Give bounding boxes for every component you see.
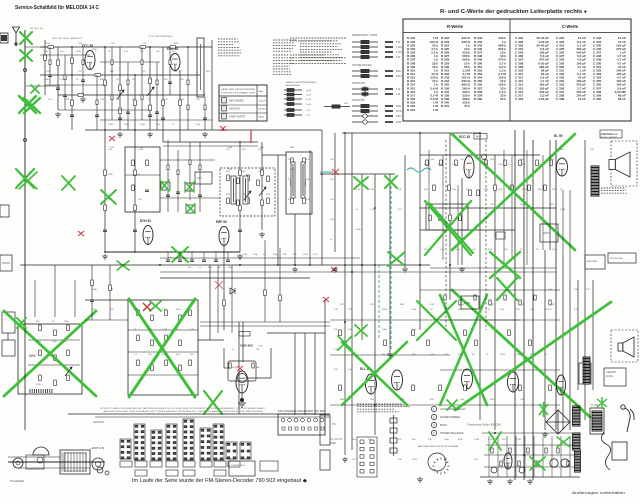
- ground symbol 19: [237, 254, 243, 259]
- svg-text:ABSCHALTUNG FÜR MUTE SCHEMA: ABSCHALTUNG FÜR MUTE SCHEMA: [418, 445, 459, 448]
- junction dot 20: [532, 207, 534, 209]
- wire v x480: [479, 133, 481, 420]
- resistor fm extra 3: [82, 60, 84, 65]
- red cross mark 4: [323, 297, 329, 302]
- wire fm h y62: [100, 61, 160, 63]
- wire amp v x498: [497, 436, 499, 477]
- left edge top box fill: [1, 35, 7, 41]
- resistor right audio 8: [485, 160, 488, 166]
- resistor IF box 3: [237, 178, 240, 184]
- resistor IF box 4: [237, 200, 240, 206]
- wire v x55 up: [54, 265, 56, 317]
- resistor AM box 6: [54, 380, 57, 386]
- resistor fm extra 8: [141, 60, 143, 65]
- wire v x504 rt: [503, 150, 505, 265]
- wire v x190 mid: [189, 142, 191, 200]
- dial drive pulley left: [13, 458, 23, 468]
- resistor output area 9: [464, 385, 467, 391]
- wire fm v x163: [162, 47, 164, 142]
- resistor AM box 1: [39, 325, 42, 331]
- wire fm top rail: [40, 46, 212, 48]
- capacitor bus row 3: [190, 260, 194, 262]
- legend2 symbol row 1: [284, 89, 302, 92]
- svg-text:R 321: R 321: [407, 108, 416, 112]
- svg-text:300c: 300c: [396, 105, 402, 108]
- wire v x405: [404, 155, 406, 265]
- red cross mark 1: [109, 136, 115, 141]
- junction dot bus 1: [159, 264, 161, 266]
- wire v x110 mid: [109, 265, 111, 320]
- table header separator: [403, 32, 631, 34]
- connector lower box 7: [214, 461, 226, 467]
- wire fm v x142: [141, 47, 143, 120]
- resistor AM box2 10: [179, 315, 182, 321]
- resistor fm extra 4: [96, 100, 98, 105]
- svg-text:120p: 120p: [253, 254, 259, 256]
- svg-text:ULTRASONIC DELAY: ULTRASONIC DELAY: [440, 407, 466, 411]
- wire stub bus 5: [215, 252, 217, 260]
- table R/C divider: [509, 19, 511, 121]
- resistor AM box 8: [67, 350, 70, 356]
- legend circled number 2: [431, 414, 436, 419]
- svg-text:NF-BUCHSE: NF-BUCHSE: [610, 258, 623, 260]
- svg-text:EBF 89: EBF 89: [216, 220, 227, 224]
- ground symbol 12: [342, 457, 348, 462]
- svg-text:2,2M: 2,2M: [370, 209, 375, 211]
- resistor amp 6: [536, 461, 538, 466]
- deletion mark X w2: [497, 278, 517, 300]
- legend2 symbol row 6: [284, 114, 302, 117]
- resistor right mid 6: [519, 300, 521, 305]
- wire v x305 down: [304, 333, 306, 415]
- wire v x593: [592, 280, 594, 390]
- wire h y47 left stub: [25, 46, 53, 48]
- antenna symbol: [13, 27, 20, 46]
- svg-text:UKW TEIL NICHT GEDRUCKT: UKW TEIL NICHT GEDRUCKT: [52, 38, 83, 40]
- connector lower box 8: [228, 461, 240, 467]
- connector lower box 6: [200, 461, 212, 467]
- svg-text:49-51: 49-51: [259, 117, 265, 119]
- svg-text:400/1: 400/1: [396, 75, 403, 78]
- left edge connector b2: [320, 450, 330, 470]
- resistor output area 1: [339, 330, 342, 336]
- wire fm v x105: [104, 47, 106, 252]
- svg-text:2,2M: 2,2M: [516, 439, 521, 441]
- resistor output area 5: [412, 385, 415, 391]
- MW coil dark bar: [30, 389, 52, 393]
- wire fm v x150: [149, 47, 151, 130]
- tube EBF89: [216, 220, 229, 246]
- capacitor bus row 2: [178, 260, 182, 262]
- capacitor ifstrip 3: [198, 195, 202, 197]
- wire stub bus 1: [167, 252, 169, 260]
- legend power resistor row 2: [352, 74, 393, 77]
- svg-text:TAPE: TAPE: [330, 442, 336, 445]
- resistor mid left 1: [91, 280, 94, 286]
- IF transformer Tr1 tall box: [197, 38, 204, 97]
- record panel label box: [600, 130, 622, 138]
- resistor fm extra 10: [156, 80, 158, 85]
- note voltages bottom right: [357, 404, 410, 412]
- svg-text:ABSTIMM: ABSTIMM: [587, 260, 597, 263]
- resistor amp 5: [527, 448, 529, 453]
- resistor 5x box 2: [439, 215, 442, 221]
- table R/C values outer border: [403, 19, 631, 121]
- wire h y155 mid: [262, 154, 286, 156]
- ground symbol 7: [292, 267, 298, 272]
- Tr104 core: [592, 411, 602, 431]
- ground symbol below EABC80: [238, 398, 246, 407]
- svg-text:TOP BELASTUNG: TOP BELASTUNG: [352, 64, 372, 67]
- capacitor fm area 8: [238, 230, 242, 232]
- junction dot 1: [71, 46, 73, 48]
- svg-text:AT-BT PLATTE: AT-BT PLATTE: [229, 116, 245, 119]
- svg-text:EL 95: EL 95: [554, 134, 563, 138]
- transistor circle amp 2: [519, 467, 525, 473]
- deletion mark X w1: [490, 252, 520, 278]
- resistor fm area 4: [71, 100, 74, 106]
- svg-text:100p: 100p: [444, 439, 450, 441]
- resistor fm area 8: [134, 100, 137, 106]
- power transformer winding seg1: [573, 406, 581, 426]
- resistor fm area 16: [134, 205, 137, 211]
- svg-text:6,3V: 6,3V: [500, 309, 505, 311]
- svg-text:R 341: R 341: [441, 104, 450, 108]
- wire h y146 mid: [163, 145, 258, 147]
- deletion mark X x164: [160, 180, 169, 191]
- resistor IF box 5: [247, 175, 250, 181]
- resistor output area 2: [339, 385, 342, 391]
- resistor output area 14: [549, 385, 552, 391]
- deletion mark X x24 y178 b: [19, 172, 37, 189]
- resistor ifstrip 1: [167, 165, 169, 170]
- svg-text:47 k: 47 k: [464, 104, 470, 108]
- wave table header line: [219, 95, 267, 97]
- wire h y133 right: [342, 132, 480, 134]
- wire v x295 down: [294, 333, 296, 415]
- resistor AM box2 13: [189, 310, 192, 316]
- junction dot bus 5: [419, 264, 421, 266]
- variable cap arrow 5: [65, 367, 72, 376]
- dial tick marks: [62, 452, 86, 472]
- capacitor ifstrip 1: [166, 195, 170, 197]
- wire h y300: [85, 299, 128, 301]
- red cross mark 2: [78, 231, 84, 236]
- wire h y340 mid: [198, 339, 224, 341]
- wire amp v x561: [560, 436, 562, 477]
- svg-text:R 360: R 360: [474, 97, 483, 101]
- resistor output area 6: [427, 340, 430, 346]
- resistor 5x box 3: [449, 215, 452, 221]
- svg-text:4-20 pF: 4-20 pF: [538, 97, 549, 101]
- box gegentakt text: [604, 368, 626, 386]
- resistor AM box2 11: [179, 340, 182, 346]
- wire amp h477: [480, 476, 580, 478]
- resistor right mid 2: [459, 300, 461, 305]
- wave table row box 1: [222, 98, 227, 104]
- svg-text:1 MΩ: 1 MΩ: [464, 302, 470, 305]
- IF coil winding 2: [243, 176, 248, 204]
- svg-text:100p: 100p: [52, 341, 58, 343]
- table column C301ff values: [515, 36, 549, 101]
- capacitor fm extra 5: [126, 112, 130, 114]
- wire amp v x525: [524, 436, 526, 477]
- svg-text:MUT: MUT: [476, 135, 482, 139]
- red cross mark 5: [215, 281, 223, 289]
- capacitor fm area 4: [148, 115, 152, 117]
- deletion mark X x537 y463: [530, 457, 545, 470]
- connector lower box 4: [166, 461, 178, 467]
- note left of legend b: [290, 55, 346, 63]
- svg-text:2,2M: 2,2M: [438, 164, 443, 166]
- junction dot bus 2: [239, 264, 241, 266]
- wire fm v x188: [187, 47, 189, 130]
- legend resistor symbol row 2: [352, 45, 393, 48]
- resistor right audio 2: [433, 185, 436, 191]
- tube EABC80: [236, 371, 248, 393]
- resistor IFT2 4: [303, 158, 306, 164]
- svg-text:VIA-FIX-B: VIA-FIX-B: [93, 421, 104, 424]
- junction dot 18: [479, 132, 481, 134]
- junction dot 2: [104, 46, 106, 48]
- wire fm rail3: [58, 94, 205, 96]
- svg-text:HÖHEN TREBLE: HÖHEN TREBLE: [440, 415, 460, 419]
- wire v x570: [569, 280, 571, 430]
- mains cable squiggle: [601, 432, 610, 470]
- table column R343ff values: [474, 36, 506, 101]
- junction dot 22: [134, 251, 136, 253]
- resistor fm extra 13: [187, 105, 189, 110]
- wire fm v x50: [49, 47, 51, 85]
- wire cmh right vertical: [270, 348, 272, 378]
- wire h y86 left stub: [26, 85, 60, 87]
- junction dot bus 9: [523, 454, 525, 456]
- deletion mark X big left b: [24, 98, 40, 113]
- deletion mark X x190 y208: [186, 204, 195, 213]
- resistor ifstrip 4: [199, 165, 201, 170]
- svg-text:C 360: C 360: [593, 97, 602, 101]
- svg-text:2,2M: 2,2M: [162, 329, 167, 331]
- svg-text:ERSATZ DER WIDERSTÄNDE: ERSATZ DER WIDERSTÄNDE: [286, 81, 317, 84]
- wire v x278: [277, 155, 279, 265]
- svg-text:100c: 100c: [396, 115, 402, 118]
- wire bus y272: [160, 271, 556, 273]
- small box mid right: [496, 232, 505, 239]
- legend2 symbol row 2: [284, 93, 302, 96]
- left edge box upper: [2, 312, 15, 333]
- wave table row line 2: [219, 112, 267, 114]
- wire v x168 mid: [167, 140, 169, 212]
- resistor right audio 11: [511, 185, 514, 191]
- designator labels scatter: [46, 43, 555, 401]
- connector lower box 3: [150, 461, 162, 467]
- wire dashed v x446: [445, 140, 447, 330]
- resistor fm horizontal 1: [48, 46, 54, 49]
- wire bus y268 right: [430, 267, 556, 269]
- legend misc symbol row 4: [352, 120, 393, 124]
- resistor right mid 3: [474, 295, 476, 300]
- ground symbol 15: [507, 479, 513, 484]
- junction dot 3: [149, 46, 151, 48]
- deletion mark X antenna 1: [20, 32, 32, 44]
- small box 5x area: [426, 204, 468, 230]
- component value labels scatter: [36, 49, 594, 461]
- connector box right2: [260, 461, 278, 471]
- capacitor bus row 4: [202, 260, 206, 262]
- wire h y174: [320, 173, 395, 175]
- wire v x352: [351, 133, 353, 450]
- resistor right audio 12: [519, 160, 522, 166]
- junction dot 19: [514, 154, 516, 156]
- wire amp h467: [484, 466, 575, 468]
- svg-text:68 nF: 68 nF: [618, 97, 626, 101]
- ground symbol 1: [55, 112, 61, 117]
- speaker1 note text: [601, 188, 627, 193]
- note messwerte: [300, 52, 343, 60]
- resistor fm extra 14: [204, 105, 206, 110]
- dial pulley right inner: [96, 462, 101, 467]
- svg-text:100p: 100p: [382, 329, 388, 331]
- wire v x563: [562, 255, 564, 430]
- wire h y278: [160, 277, 310, 279]
- dial frame box: [26, 455, 44, 469]
- resistor fm area 13: [104, 170, 107, 176]
- svg-text:1 W: 1 W: [396, 88, 401, 91]
- wire h y155 right: [420, 154, 540, 156]
- svg-text:100p: 100p: [92, 289, 98, 291]
- speaker 2 cone: [618, 337, 634, 357]
- deletion mark X x396 y259: [388, 252, 405, 266]
- svg-text:2,2M: 2,2M: [108, 124, 113, 126]
- resistor AM box2 12: [179, 365, 182, 371]
- wire v x443 rt: [442, 155, 444, 260]
- svg-text:5 W: 5 W: [396, 41, 401, 44]
- tube ELL80 a: [360, 367, 377, 394]
- wire amp v x570: [569, 436, 571, 477]
- wire v x325 down: [324, 300, 326, 415]
- wire v x262: [261, 142, 263, 230]
- ratio box inner wire: [125, 174, 160, 176]
- teal vertical dashed line: [390, 186, 392, 350]
- svg-text:1M: 1M: [382, 354, 385, 356]
- ground symbol 2: [80, 97, 86, 102]
- svg-text:FM-STEREO-DECODER 790 502: FM-STEREO-DECODER 790 502: [278, 410, 326, 413]
- note left of legend a: [290, 38, 347, 41]
- wire v x200b mid: [199, 142, 201, 212]
- resistor x280 mid: [279, 295, 282, 301]
- tube ECH81: [140, 219, 153, 245]
- resistor in ratio box 3: [146, 160, 149, 166]
- resistor fm horizontal 4: [78, 94, 84, 97]
- connector wide box stereo: [229, 461, 255, 476]
- svg-text:100p: 100p: [273, 254, 279, 256]
- wire v x495: [494, 155, 496, 430]
- wire left vertical feed: [24, 30, 26, 252]
- speaker 1 cone: [609, 152, 630, 177]
- resistor amp 2: [500, 461, 502, 466]
- label box right of ECC83: [474, 134, 487, 140]
- aux symbol 3: [390, 435, 397, 446]
- wire v x458 rt: [457, 185, 459, 265]
- junction dot 16: [344, 132, 346, 134]
- wire v x362: [361, 174, 363, 340]
- wire v x570b up: [569, 190, 571, 280]
- svg-text:6,3V: 6,3V: [162, 309, 167, 311]
- capacitor mid left: [90, 300, 94, 302]
- teal dashed lower: [378, 265, 380, 340]
- svg-text:TELESKOP: TELESKOP: [352, 99, 365, 102]
- AM coil box 2: [128, 300, 198, 395]
- wire v x295: [294, 214, 296, 265]
- resistor IF box 2: [227, 198, 230, 204]
- capacitor fm extra 7: [168, 82, 172, 84]
- wire v x543 rt: [542, 155, 544, 250]
- table column C322ff values: [556, 36, 586, 101]
- variable cap arrow 3: [244, 191, 251, 200]
- small motor drawing: [97, 467, 109, 475]
- svg-text:250V: 250V: [303, 254, 309, 256]
- wave table col divider: [256, 85, 258, 121]
- svg-text:⌐1907 A B: ⌐1907 A B: [90, 446, 104, 450]
- deletion mark X small x35: [31, 85, 39, 93]
- deletion mark X x213 y402: [204, 391, 222, 414]
- resistor AM box2 5: [151, 340, 154, 346]
- resistor IFT2 6: [303, 198, 306, 204]
- resistor mid left 2: [109, 285, 112, 291]
- wire fm v x83: [82, 47, 84, 95]
- resistor AM box2 9: [165, 360, 168, 366]
- aux symbol 1: [390, 415, 397, 426]
- wire cmh right horiz: [248, 377, 271, 379]
- tube output right: [462, 369, 473, 389]
- resistor right audio 14: [536, 160, 539, 166]
- wire v x240: [239, 142, 241, 252]
- ground symbol 13: [417, 477, 423, 482]
- transformer Tr103: [583, 357, 590, 384]
- wire am2 h1: [128, 329, 198, 331]
- junction dot 12: [344, 264, 346, 266]
- deletion mark X x69 y183: [62, 176, 75, 190]
- cmh loop wire: [228, 361, 256, 381]
- junction dot 9: [239, 141, 241, 143]
- svg-text:LAGE DER DRUCKKNÖPFE: LAGE DER DRUCKKNÖPFE: [221, 88, 256, 91]
- deletion mark X x24 y178 a: [16, 169, 34, 188]
- resistor right audio 13: [528, 185, 531, 191]
- ground symbol 5: [202, 132, 208, 137]
- resistor IF box 1: [227, 175, 230, 181]
- resistor fm area 17: [239, 170, 242, 176]
- wire v x429 rt: [428, 150, 430, 230]
- junction dot 23: [374, 207, 376, 209]
- deletion mark X x452 y405: [447, 400, 457, 410]
- deletion mark X x495 y441: [489, 432, 501, 450]
- wire h y320 left: [85, 319, 128, 321]
- svg-text:ECC 83: ECC 83: [459, 135, 470, 139]
- svg-text:ECC 85: ECC 85: [82, 44, 93, 48]
- resistor AM box 7: [67, 325, 70, 331]
- resistor fm horizontal 2: [95, 74, 101, 77]
- red mark small x223: [220, 126, 226, 131]
- ground symbol 14: [487, 479, 493, 484]
- deletion mark big X ELL80: [342, 342, 407, 405]
- wire fm v x212: [211, 40, 213, 130]
- wire fm rail2: [40, 74, 200, 76]
- ground symbol 9: [387, 352, 393, 357]
- svg-text:AUSG.: AUSG.: [606, 375, 614, 378]
- capacitor bus row 5: [214, 260, 218, 262]
- pushbutton connector column 3: [151, 430, 162, 460]
- wire v x524: [523, 130, 525, 480]
